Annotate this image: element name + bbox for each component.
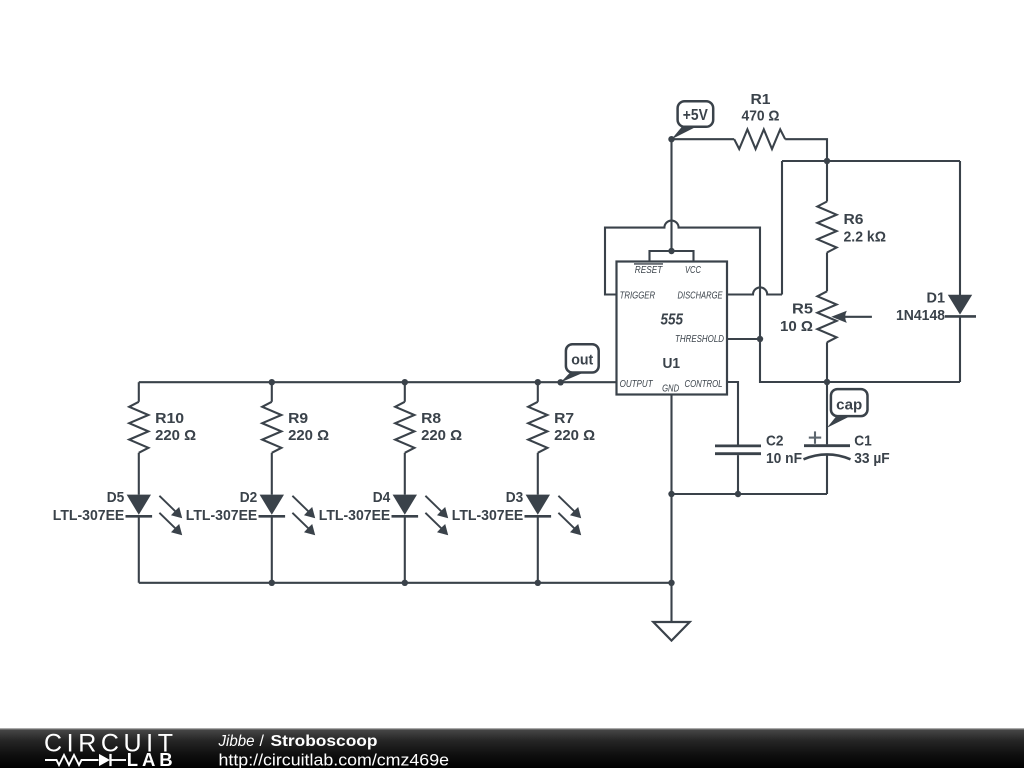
svg-text:LTL-307EE: LTL-307EE [319, 507, 391, 524]
wire C1 bottom [826, 455, 828, 494]
wire discharge left vertical [781, 161, 783, 295]
wire DISCHARGE pin with hop [727, 287, 782, 294]
wire reset-vcc bridge [650, 251, 694, 262]
capacitor C2 [715, 446, 761, 454]
svg-text:LTL-307EE: LTL-307EE [53, 507, 125, 524]
svg-text:C1: C1 [854, 433, 872, 450]
svg-text:Jibbe: Jibbe [218, 733, 255, 750]
wire trigger-threshold top route with hop [605, 221, 760, 339]
node bottom rail junction dot [668, 580, 674, 586]
node rail bottom junction dot D4 [402, 580, 408, 586]
wire D1 bottom vertical [959, 316, 961, 382]
wire R5 bottom stub [826, 342, 828, 382]
LED D2 [259, 495, 286, 517]
wire bottom rail [139, 582, 672, 584]
svg-text:D3: D3 [506, 489, 524, 506]
svg-text:10 nF: 10 nF [766, 450, 802, 467]
LED D5 [126, 495, 153, 517]
svg-text:DISCHARGE: DISCHARGE [678, 290, 723, 301]
svg-text:RESET: RESET [635, 265, 663, 276]
svg-text:470 Ω: 470 Ω [742, 108, 780, 125]
svg-text:33 µF: 33 µF [854, 450, 890, 467]
svg-text:10 Ω: 10 Ω [780, 318, 813, 335]
wire C1 top [826, 382, 828, 444]
wire threshold down and right [760, 339, 960, 382]
wire R7 top stub [537, 382, 539, 402]
op-amp U1 555 chip body [617, 262, 728, 395]
resistor R9 [262, 402, 281, 453]
wire R10 top stub [138, 382, 140, 402]
wire D3 bottom [537, 516, 539, 583]
wire R1 right to discharge node [785, 139, 827, 161]
wire R6 top stub [826, 161, 828, 202]
LED D3 [525, 495, 552, 517]
wire THRESHOLD pin [727, 338, 760, 340]
node out junction dot [557, 379, 563, 385]
node rail bottom junction dot D3 [535, 580, 541, 586]
svg-text:R6: R6 [844, 211, 864, 228]
svg-text:D1: D1 [927, 290, 946, 307]
svg-text:cap: cap [836, 396, 862, 413]
wire R9 to D2 [271, 453, 273, 495]
svg-text:2.2 kΩ: 2.2 kΩ [844, 229, 887, 246]
svg-text:LAB: LAB [127, 749, 177, 768]
LED D4 light arrows [425, 496, 448, 535]
wire R6 to R5 [826, 253, 828, 292]
svg-text:+5V: +5V [683, 107, 708, 124]
node gnd-C2 junction dot [735, 491, 741, 497]
node rail bottom junction dot D2 [269, 580, 275, 586]
LED D2 light arrows [292, 496, 315, 535]
wire +5V node to R1 [672, 138, 735, 140]
net flag cap [827, 389, 868, 428]
svg-text:D5: D5 [107, 489, 125, 506]
wire R10 to D5 [138, 453, 140, 495]
resistor R10 [129, 402, 148, 453]
svg-text:555: 555 [661, 312, 684, 329]
svg-text:220 Ω: 220 Ω [155, 427, 196, 444]
capacitor C1 polarized [804, 446, 851, 460]
svg-text:220 Ω: 220 Ω [554, 427, 595, 444]
wire C2 bottom [737, 455, 739, 494]
svg-text:220 Ω: 220 Ω [288, 427, 329, 444]
footer bar [0, 728, 1024, 768]
node gnd junction dot [668, 491, 674, 497]
svg-text:220 Ω: 220 Ω [421, 427, 462, 444]
svg-text:LTL-307EE: LTL-307EE [452, 507, 524, 524]
wire R8 top stub [404, 382, 406, 402]
ground symbol [653, 622, 689, 641]
svg-text:R1: R1 [751, 91, 771, 108]
svg-text:R9: R9 [288, 410, 308, 427]
svg-text:R10: R10 [155, 410, 184, 427]
resistor R8 [395, 402, 414, 453]
wire output rail [139, 381, 617, 383]
potentiometer R5 [817, 291, 836, 342]
node reset-vcc junction dot [668, 248, 674, 254]
svg-text:D2: D2 [240, 489, 258, 506]
wire +5V vertical to chip [670, 139, 672, 251]
svg-text:TRIGGER: TRIGGER [620, 290, 656, 301]
svg-text:http://circuitlab.com/cmz469e: http://circuitlab.com/cmz469e [219, 751, 450, 768]
svg-text:OUTPUT: OUTPUT [620, 379, 654, 390]
diode D1 [945, 295, 976, 317]
wire R8 to D4 [404, 453, 406, 495]
wire R9 top stub [271, 382, 273, 402]
svg-text:D4: D4 [373, 489, 391, 506]
node threshold junction dot [757, 336, 763, 342]
svg-text:Stroboscoop: Stroboscoop [271, 733, 378, 750]
wire discharge node horizontal [782, 160, 960, 162]
svg-text:/: / [260, 733, 265, 750]
logo resistor-diode glyph [45, 754, 126, 766]
C1 plus sign [809, 431, 821, 443]
wire D4 bottom [404, 516, 406, 583]
wire GND pin vertical [670, 395, 672, 583]
wire D1 top vertical [959, 161, 961, 295]
+5V power flag [672, 101, 714, 139]
potentiometer R5 wiper arrow [843, 316, 872, 318]
node rail top junction dot R8 [402, 379, 408, 385]
svg-text:R7: R7 [554, 410, 574, 427]
net flag out [561, 344, 599, 382]
svg-text:THRESHOLD: THRESHOLD [675, 334, 724, 345]
svg-text:1N4148: 1N4148 [896, 307, 945, 324]
wire ground stem [670, 583, 672, 622]
wire ground horizontal to C1 [672, 493, 828, 495]
wire D2 bottom [271, 516, 273, 583]
svg-text:GND: GND [662, 384, 679, 395]
svg-text:R8: R8 [421, 410, 441, 427]
svg-text:C2: C2 [766, 433, 784, 450]
svg-text:CONTROL: CONTROL [685, 379, 723, 390]
resistor R1 [734, 129, 785, 149]
node rail top junction dot R7 [535, 379, 541, 385]
resistor R6 [817, 202, 836, 253]
wire D5 bottom [138, 516, 140, 583]
LED D4 [392, 495, 419, 517]
svg-text:R5: R5 [792, 301, 813, 318]
node +5V junction dot [668, 136, 674, 142]
wire R7 to D3 [537, 453, 539, 495]
LED D5 light arrows [159, 496, 182, 535]
node R5-C1 junction dot [824, 379, 830, 385]
wire CONTROL pin to C2 [727, 382, 738, 445]
LED D3 light arrows [558, 496, 581, 535]
node rail top junction dot R9 [269, 379, 275, 385]
svg-text:LTL-307EE: LTL-307EE [186, 507, 258, 524]
svg-text:out: out [571, 351, 593, 368]
svg-text:U1: U1 [663, 355, 681, 372]
svg-text:VCC: VCC [685, 265, 702, 276]
resistor R7 [528, 402, 547, 453]
node discharge junction dot [824, 158, 830, 164]
